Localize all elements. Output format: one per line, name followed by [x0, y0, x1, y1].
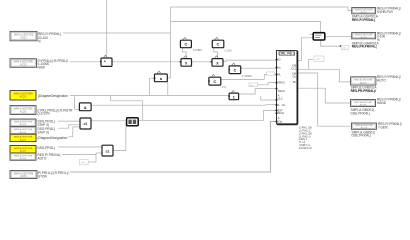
svg-text:PAUL: PAUL [278, 111, 285, 115]
svg-text:STeP 0): STeP 0) [38, 131, 49, 135]
svg-text:ACQS: ACQS [361, 36, 368, 39]
svg-text:≥1: ≥1 [84, 122, 88, 126]
svg-text:SVHB.PLR: SVHB.PLR [377, 10, 393, 14]
svg-text:ACQS: ACQS [361, 126, 368, 129]
svg-text:ACQS: ACQS [360, 103, 367, 106]
svg-text:PL: PL [278, 73, 282, 77]
svg-text:(DiagramDesignation: (DiagramDesignation [38, 94, 68, 98]
svg-text:ACQS: ACQS [20, 150, 27, 153]
svg-text:SMPLA GESTORE: SMPLA GESTORE [14, 147, 33, 150]
svg-text:ACQS: ACQS [361, 11, 368, 14]
svg-text:DGE.PRI04L(: DGE.PRI04L( [352, 134, 372, 138]
svg-text:A OL: A OL [278, 103, 286, 107]
svg-text:SMPLA GESTORE: SMPLA GESTORE [14, 121, 33, 124]
svg-text:ACQS: ACQS [20, 63, 27, 66]
svg-text:ACQS: ACQS [360, 81, 367, 84]
svg-text:SMPLA GESTORE: SMPLA GESTORE [13, 93, 33, 96]
svg-text:()-2/10%: ()-2/10% [38, 112, 50, 116]
svg-text:C 100: C 100 [225, 48, 232, 52]
svg-text:D PaRT off: D PaRT off [299, 146, 312, 150]
svg-text:C 10000: C 10000 [242, 74, 252, 78]
svg-text:I/o: I/o [278, 66, 281, 70]
svg-text:≥1: ≥1 [106, 149, 110, 153]
svg-text:DSG.PRI1L(: DSG.PRI1L( [38, 146, 57, 150]
svg-text:C 0: C 0 [222, 85, 227, 89]
svg-text:SMPLA GESTORE: SMPLA GESTORE [14, 128, 33, 131]
svg-text:CTRL_PID_3: CTRL_PID_3 [279, 52, 296, 56]
svg-text:C: C [233, 68, 236, 73]
svg-text:CL2: CL2 [278, 96, 283, 100]
svg-text:sim: sim [250, 85, 253, 87]
svg-text:RES.PR.PRI04L(/: RES.PR.PRI04L(/ [351, 89, 377, 93]
svg-text:AUTO: AUTO [377, 79, 386, 83]
svg-text:TRAC: TRAC [278, 81, 285, 85]
svg-text:STOR: STOR [38, 175, 47, 179]
svg-text:TRAC: TRAC [278, 89, 285, 93]
svg-text:DGE.PRI04L(: DGE.PRI04L( [351, 111, 371, 115]
svg-text:Nm/h: Nm/h [38, 66, 46, 70]
svg-text:OL: OL [293, 74, 297, 78]
svg-text:+: + [104, 60, 106, 64]
svg-text:C: C [184, 42, 187, 47]
svg-text:SMPLA GESTORE: SMPLA GESTORE [14, 154, 33, 157]
svg-text:ACQS: ACQS [20, 157, 27, 160]
svg-text:STeP 0): STeP 0) [38, 123, 49, 127]
svg-text:A: A [278, 116, 280, 120]
svg-text:C: C [213, 79, 216, 84]
svg-text:ACQS: ACQS [20, 96, 27, 99]
svg-text:ACQS: ACQS [20, 123, 27, 126]
svg-text:0 0.995: 0 0.995 [193, 48, 202, 52]
svg-text:ACQS: ACQS [20, 175, 27, 178]
svg-text:PL: PL [293, 80, 297, 84]
svg-text:SMPLA GESTORE: SMPLA GESTORE [13, 61, 33, 64]
svg-text:ACQS: ACQS [20, 110, 27, 113]
svg-text:SMPLA GESTORE: SMPLA GESTORE [13, 108, 33, 111]
svg-text:(Op: (Op [278, 120, 283, 124]
svg-text:REG.P/.PRI04L(: REG.P/.PRI04L( [352, 18, 376, 22]
svg-text:SMPLA GESTORE: SMPLA GESTORE [354, 79, 373, 82]
svg-text:REG.PR.PRI04L(: REG.PR.PRI04L( [352, 45, 378, 49]
svg-text:SMPLA GESTORE: SMPLA GESTORE [14, 172, 34, 175]
svg-text:HAND: HAND [377, 101, 387, 105]
svg-text:CL2: CL2 [291, 66, 296, 70]
svg-text:AUTO: AUTO [38, 157, 47, 161]
svg-text:&: & [84, 105, 87, 110]
svg-text:ACQS: ACQS [20, 37, 27, 40]
svg-text:ACQS: ACQS [20, 138, 27, 141]
svg-text:%: % [38, 39, 41, 43]
svg-text:SMPLA GESTORE: SMPLA GESTORE [14, 34, 34, 37]
svg-text:ACQS: ACQS [20, 131, 27, 134]
svg-text:IO: IO [278, 58, 281, 62]
svg-text:(DiagramDesignation: (DiagramDesignation [38, 136, 68, 140]
svg-text:SMPLA GESTORE: SMPLA GESTORE [14, 136, 33, 139]
svg-text:T.GEN.: T.GEN. [378, 125, 388, 129]
svg-text:C: C [217, 42, 220, 47]
